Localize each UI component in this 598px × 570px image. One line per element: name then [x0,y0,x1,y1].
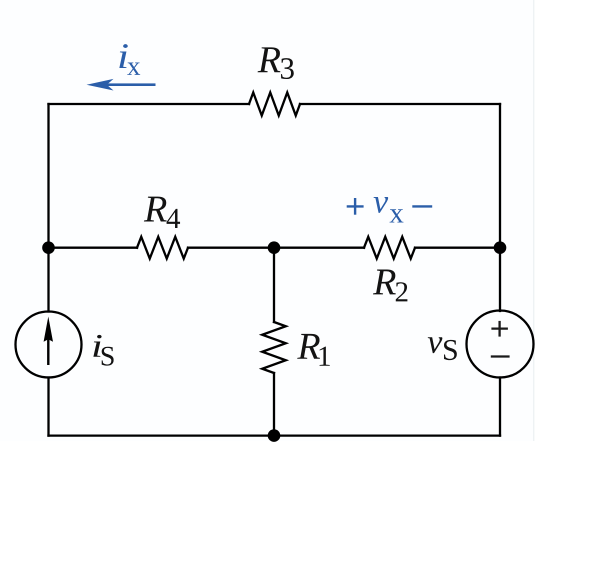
label vx glyphs (blue) [374,197,404,223]
label iS [93,335,113,366]
wire right vertical lower [499,378,501,436]
wire R3 to top-right corner [300,103,500,105]
label R4 [144,197,180,228]
resistor R2 [364,237,415,259]
label R1 [297,334,330,366]
node C: right middle junction dot [494,241,507,254]
current arrow ix (blue) [87,79,156,91]
wire right vertical upper [499,104,501,311]
wire left vertical lower [47,378,49,436]
node D: bottom junction dot [268,429,281,442]
wire left vertical upper [47,104,49,312]
voltage source vS circle [467,311,534,378]
wire R2 to right node [415,247,500,249]
label + vx - (blue) [347,198,433,215]
label vS [428,337,457,360]
figure scan background [0,0,534,441]
resistor R4 [137,237,188,259]
label ix (blue) [119,44,140,75]
resistor R3 [249,93,300,116]
wire middle vertical upper [273,248,275,322]
wire middle vertical lower [273,373,275,436]
voltage source plus sign [491,321,510,357]
wire middle horizontal left segment [49,247,138,249]
wire R4 to center node [188,247,364,249]
wire bottom [49,434,501,436]
current source iS circle [16,312,82,378]
label R2 [373,270,407,302]
current source iS arrow [44,317,53,366]
wire top-left to R3 [49,103,250,105]
node A: left middle junction dot [42,241,55,254]
label R3 [258,47,294,79]
node B: center middle junction dot [268,241,281,254]
voltage source minus sign [491,355,510,357]
resistor R1 [262,322,286,373]
